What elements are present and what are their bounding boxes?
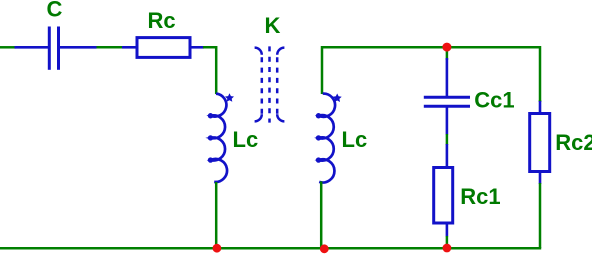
polarity dot (star) of right Lc (333, 94, 342, 103)
wire: bottom rail (0, 247, 541, 250)
svg-text:Rc1: Rc1 (460, 184, 500, 209)
inductor Lc (left) (208, 94, 227, 182)
wire: green above Rc2 (539, 100, 542, 102)
coupling K symbol (dashed core) (255, 46, 285, 122)
wire: left Lc to bottom rail (215, 182, 218, 248)
junction dot (Cc1 / top rail) (442, 43, 451, 52)
polarity dot (star) of left Lc (225, 93, 234, 102)
wire: Rc2 to bottom rail (539, 183, 542, 248)
svg-text:Rc2: Rc2 (555, 130, 592, 155)
junction dot (Rc1 / bottom rail) (443, 244, 452, 253)
inductor Lc (right) (316, 94, 335, 183)
capacitor Cc1 (424, 58, 470, 135)
junction dot (left Lc / bottom rail) (213, 244, 222, 253)
resistor Rc1 (434, 144, 453, 237)
svg-text:Rc: Rc (148, 8, 176, 33)
svg-text:Cc1: Cc1 (474, 87, 514, 112)
capacitor C (15, 27, 97, 70)
wire: resistor to left branch corner (203, 47, 216, 94)
wire: Rc1 to bottom rail (446, 236, 449, 248)
wire: right Lc to bottom rail (320, 181, 323, 248)
wire: short green above Cc1 (446, 47, 449, 60)
svg-text:K: K (265, 13, 281, 38)
resistor Rc2 (530, 101, 550, 184)
svg-text:Lc: Lc (342, 127, 368, 152)
junction dot (right Lc / bottom rail) (320, 244, 329, 253)
resistor Rc (122, 38, 204, 58)
wire: cap to resistor (97, 46, 124, 49)
svg-text:Lc: Lc (233, 127, 259, 152)
wire: left input green stub (0, 46, 16, 49)
wire: Cc1 to Rc1 (446, 134, 449, 145)
svg-text:C: C (47, 0, 63, 21)
wire: right loop top rail (322, 47, 540, 101)
